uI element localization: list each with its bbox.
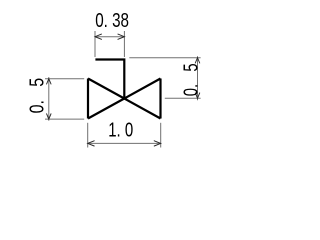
svg-text:0. 5: 0. 5 <box>26 78 48 114</box>
svg-text:0. 38: 0. 38 <box>95 10 129 32</box>
svg-text:0. 5: 0. 5 <box>180 63 202 96</box>
svg-text:1. 0: 1. 0 <box>108 119 133 141</box>
